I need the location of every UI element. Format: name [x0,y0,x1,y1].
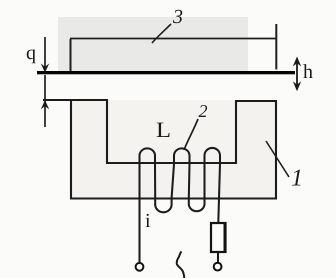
svg-text:q: q [26,42,36,64]
arrowhead up of gap dimension [41,100,49,110]
notch interior tint [107,100,236,163]
coil turn T3 (top hump 3) [205,148,221,164]
dimension line gap (below strip) [44,75,46,127]
svg-text:1: 1 [291,166,303,192]
arrowhead up of h [293,57,301,67]
core body tint [71,100,276,198]
left terminal circle [136,263,144,271]
leader line for 3 [152,24,171,43]
thick strip (pole face line) [37,71,295,74]
left lead wire of coil [138,164,140,262]
plate 3 gray fill [58,17,248,71]
coil turn B1 (bottom hump 1) [155,198,171,212]
coil crossing wire B2-T3 [203,164,205,198]
coil crossing wire T1-B1 [154,164,156,198]
wire resistor to terminal [217,253,219,263]
plate 3 outline top edge [70,38,276,40]
arrowhead down of q [41,64,49,73]
plate 3 outline left edge [70,39,72,73]
dimension line q (above strip) [44,37,46,70]
svg-text:i: i [145,210,151,232]
svg-text:h: h [303,61,313,83]
core 1 outline (U channel) [43,100,276,199]
dimension arrow h (double headed, right of strip) [296,59,298,89]
right lead wire of coil [218,164,220,223]
right terminal circle [214,263,222,271]
stray squiggle mark [177,252,185,278]
svg-text:3: 3 [172,6,183,28]
coil turn T1 (top hump 1) [140,148,156,164]
svg-text:2: 2 [199,101,208,121]
resistor right edge thick stroke [224,223,227,253]
leader line for 1 [266,141,289,177]
coil turn T2 (top hump 2) [174,148,190,164]
resistor R [211,223,226,252]
coil crossing wire T2-B2 [188,164,191,198]
arrowhead down of h [293,81,301,91]
coil crossing wire B1-T2 [172,164,174,198]
plate 3 outline right edge [275,24,277,70]
leader line for 2 [184,119,198,150]
coil turn B2 (bottom hump 2) [189,198,205,211]
svg-text:L: L [156,117,171,142]
